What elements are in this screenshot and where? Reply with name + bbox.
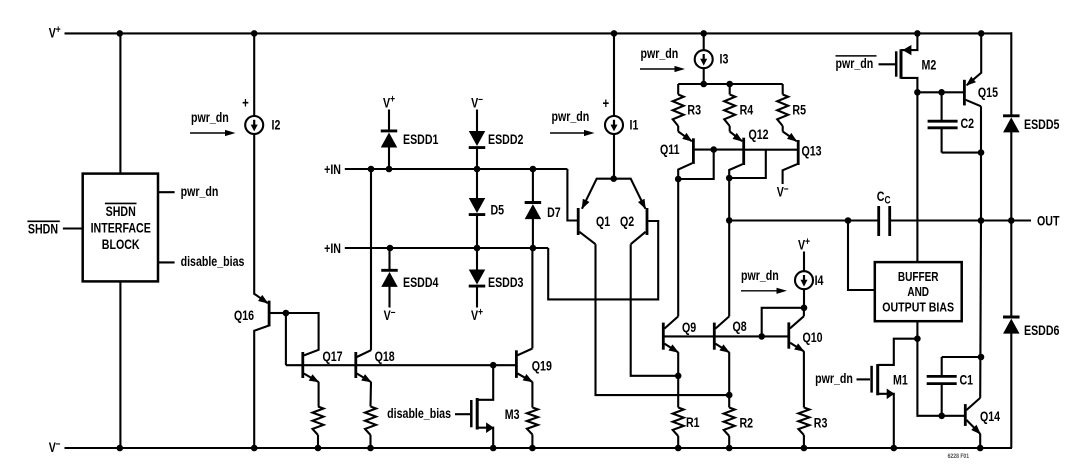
transistor Q2 xyxy=(614,179,647,245)
svg-text:OUT: OUT xyxy=(1037,213,1060,229)
junction on V+ rail at SHDN column xyxy=(117,30,124,37)
resistor Q17 emitter degeneration xyxy=(313,407,324,436)
pwr_dn control label and arrow for I3 xyxy=(640,46,685,73)
junction on V+ rail at I2 column xyxy=(251,30,258,37)
svg-text:ESDD5: ESDD5 xyxy=(1024,117,1060,133)
wire Q17 emitter to resistor xyxy=(318,382,320,407)
svg-text:Q14: Q14 xyxy=(980,408,1000,424)
wire base bus Q17 Q18 Q19 xyxy=(286,364,517,366)
wire Q19 collector up to +IN row2 node xyxy=(531,248,533,349)
resistor R2 xyxy=(724,408,753,449)
junction row1 at ESDD2/D5 xyxy=(474,166,481,173)
transistor Q16 xyxy=(234,294,286,448)
diode ESDD5 xyxy=(1003,32,1059,220)
junction OUT row at ESD column xyxy=(1008,217,1015,224)
svg-text:pwr_dn: pwr_dn xyxy=(815,371,853,387)
svg-text:C2: C2 xyxy=(961,116,975,132)
junction OUT row at Q15/Q14 column xyxy=(978,217,985,224)
wire compensation node to Cc xyxy=(729,219,879,221)
svg-text:I4: I4 xyxy=(815,273,824,289)
figure label 6228 F01 xyxy=(948,454,970,461)
svg-text:+IN: +IN xyxy=(324,162,341,178)
wire buffer output down xyxy=(916,321,918,339)
junction resistor bus at I3 xyxy=(700,81,707,88)
svg-text:D5: D5 xyxy=(491,202,505,218)
svg-text:INTERFACE: INTERFACE xyxy=(91,220,151,236)
junction Q14 base at C1 xyxy=(938,413,945,420)
svg-text:6228 F01: 6228 F01 xyxy=(948,454,970,461)
SHDN interface block box xyxy=(83,174,158,282)
transistor Q17 xyxy=(303,349,343,383)
node OUT label xyxy=(1037,213,1060,229)
wire base bus Q9 Q8 Q10 xyxy=(664,335,788,337)
junction on V- rail at M1 source xyxy=(891,445,898,452)
transistor Q12 xyxy=(729,126,798,178)
svg-text:SHDN: SHDN xyxy=(28,221,58,237)
wire Q18 emitter to resistor xyxy=(369,382,372,407)
svg-text:OUTPUT BIAS: OUTPUT BIAS xyxy=(882,300,954,315)
junction on V- rail at Q16 collector xyxy=(251,445,258,452)
wire Q11 collector down to Q9 xyxy=(677,179,679,316)
transistor Q9 xyxy=(663,316,696,352)
wire I2 to Q16 emitter xyxy=(253,134,255,295)
junction on V+ rail at M2 xyxy=(914,30,921,37)
junction C1 top at Q14 collector column xyxy=(978,354,985,361)
buffer and output bias block xyxy=(875,262,962,321)
svg-text:+: + xyxy=(602,95,609,112)
svg-text:Q10: Q10 xyxy=(802,330,822,346)
junction Q15 collector at C2 xyxy=(978,149,985,156)
svg-text:I1: I1 xyxy=(630,117,639,133)
svg-text:SHDN: SHDN xyxy=(106,204,136,220)
SHDN input pin label with overline and lead xyxy=(27,221,82,237)
wire V+ rail to SHDN block top xyxy=(119,33,121,173)
junction on V- rail at SHDN column xyxy=(117,445,124,452)
junction on V- rail at R1 xyxy=(675,445,682,452)
svg-text:Q19: Q19 xyxy=(532,358,552,374)
svg-text:disable_bias: disable_bias xyxy=(387,405,451,421)
diode ESDD4 with V- label xyxy=(381,248,438,323)
transistor Q1 xyxy=(578,179,614,245)
wire I3 to resistor bus xyxy=(703,68,705,84)
wire SHDN block bottom to V- rail xyxy=(119,281,121,448)
node Q16 base junction xyxy=(283,310,290,317)
pwr_dn control label and arrow for I2 xyxy=(190,110,236,136)
junction Q9 emitter at Q2 collector xyxy=(675,373,682,380)
wire buffer output to Q14 base xyxy=(917,339,964,416)
wire Cc branch to buffer input xyxy=(848,221,875,291)
svg-text:AND: AND xyxy=(907,285,929,300)
junction on V+ rail at I1 column xyxy=(611,30,618,37)
svg-text:M3: M3 xyxy=(505,407,520,423)
resistor Q18 emitter degeneration xyxy=(365,407,376,436)
svg-text:Q9: Q9 xyxy=(682,320,696,336)
wire Q1 collector down xyxy=(596,244,730,395)
wire I1 to Q1/Q2 emitters xyxy=(613,134,615,179)
svg-text:Q12: Q12 xyxy=(749,127,769,143)
svg-text:Q13: Q13 xyxy=(801,143,821,159)
svg-text:pwr_dn: pwr_dn xyxy=(191,110,229,126)
junction row1 at ESDD1 xyxy=(386,166,393,173)
svg-text:pwr_dn: pwr_dn xyxy=(641,46,679,62)
junction C2 top at base line xyxy=(938,89,945,96)
diode D7 xyxy=(525,169,561,248)
svg-text:C1: C1 xyxy=(960,372,974,388)
junction on V- rail at R2 xyxy=(726,445,733,452)
junction I4 output node xyxy=(801,305,808,312)
junction buffer output node xyxy=(914,335,921,342)
pin pwr_dn output of SHDN block xyxy=(158,183,218,199)
junction Q12 collector node xyxy=(726,175,733,182)
svg-text:pwr_dn: pwr_dn xyxy=(741,268,779,284)
svg-text:R2: R2 xyxy=(740,415,754,431)
junction on V- rail at Q18 resistor xyxy=(367,445,374,452)
pin disable_bias output of SHDN block xyxy=(158,254,244,270)
svg-text:pwr_dn: pwr_dn xyxy=(181,183,219,199)
svg-text:Q11: Q11 xyxy=(660,142,680,158)
junction resistor bus at R4 xyxy=(726,81,733,88)
junction Q11 base xyxy=(710,146,717,153)
svg-text:Q16: Q16 xyxy=(234,308,254,324)
transistor M2 xyxy=(896,33,936,92)
resistor R4 xyxy=(724,84,753,126)
transistor Q18 xyxy=(356,349,395,383)
svg-text:Q18: Q18 xyxy=(375,349,395,365)
svg-text:pwr_dn: pwr_dn xyxy=(836,56,874,72)
wire Q14 collector up xyxy=(979,221,982,398)
wire Q11 base to collector xyxy=(678,150,714,179)
net V- bottom supply rail with label xyxy=(49,438,1012,455)
wire Q2 collector down xyxy=(631,244,679,376)
svg-text:ESDD6: ESDD6 xyxy=(1024,323,1060,339)
junction row1 at Q18 collector xyxy=(368,166,375,173)
wire M2 drain to Q15 base xyxy=(917,91,963,93)
svg-text:BLOCK: BLOCK xyxy=(102,236,140,252)
resistor R5 xyxy=(777,84,806,126)
wire row1 to Q1 base xyxy=(567,169,577,221)
wire Q10 collector up to I4 xyxy=(803,308,805,316)
wire buffer output to M1 drain xyxy=(878,339,918,365)
wire V+ rail to I1 xyxy=(613,33,615,116)
svg-text:Q1: Q1 xyxy=(596,214,610,230)
node +IN input row2 label and wire xyxy=(324,241,548,257)
junction M3 drain on base bus xyxy=(490,362,497,369)
junction on V+ rail at I3 column xyxy=(700,30,707,37)
wire Q12 base tie-down xyxy=(729,150,766,178)
svg-text:Q15: Q15 xyxy=(978,85,998,101)
svg-text:ESDD1: ESDD1 xyxy=(403,132,439,148)
node Q1 Q2 emitter junction xyxy=(610,175,617,182)
diode ESDD6 xyxy=(1003,221,1059,449)
wire Q9 emitter down to R1 xyxy=(677,352,679,407)
svg-text:Q2: Q2 xyxy=(620,214,634,230)
transistor Q15 xyxy=(964,77,998,107)
transistor Q11 xyxy=(660,126,744,179)
pwr_dn control label and arrow for I4 xyxy=(741,268,787,294)
svg-text:BUFFER: BUFFER xyxy=(898,270,939,285)
svg-text:+: + xyxy=(242,94,249,111)
transistor Q8 xyxy=(714,316,746,352)
wire I4 to Q10 collector xyxy=(803,289,805,308)
transistor Q14 xyxy=(965,398,1000,435)
svg-text:R4: R4 xyxy=(740,102,754,118)
wire row2 to Q2 base xyxy=(548,221,658,299)
junction row2 at D7/Q19 xyxy=(530,245,537,252)
resistor R3 xyxy=(673,84,701,126)
transistor M1 with pwr_dn gate label xyxy=(815,364,908,448)
current source I4 with V+ label xyxy=(795,236,824,289)
current source I3 xyxy=(695,50,729,68)
diode D5 xyxy=(469,169,504,248)
wire Q8 collector up to compensation node xyxy=(728,220,730,316)
junction on V- rail at R3 xyxy=(801,445,808,452)
capacitor C2 xyxy=(928,92,981,152)
transistor M3 with disable_bias gate label xyxy=(387,365,519,448)
wire I4 node to base bus xyxy=(762,308,804,337)
wire Q10 emitter down to R3 xyxy=(803,351,805,407)
wire Q15 collector down xyxy=(980,106,982,220)
wire Q16 base to Q17 collector xyxy=(286,313,319,355)
wire V+ rail to I2 xyxy=(253,33,255,116)
wire Q16 base down to base bus xyxy=(285,313,287,365)
wire Q18 collector up to +IN row1 xyxy=(370,169,372,350)
svg-text:R5: R5 xyxy=(792,102,806,118)
diode ESDD2 with V- label xyxy=(469,94,524,169)
svg-text:ESDD2: ESDD2 xyxy=(488,132,524,148)
node +IN input row1 label and wire xyxy=(324,162,567,178)
junction on V- rail at M3 source xyxy=(490,445,497,452)
svg-text:+IN: +IN xyxy=(324,241,341,257)
wire resistor to V- rail xyxy=(531,435,533,449)
wire Q19 emitter to resistor xyxy=(531,382,533,408)
junction row1 at D7 xyxy=(530,166,537,173)
wire Q14 emitter to V- rail xyxy=(979,434,981,448)
wire M2 drain column down to buffer xyxy=(916,92,918,262)
wire V+ rail to Q15 emitter xyxy=(967,33,982,85)
transistor Q13 xyxy=(783,126,822,184)
svg-text:Q8: Q8 xyxy=(733,319,747,335)
junction M2 drain node xyxy=(914,89,921,96)
junction on V- rail at Q17 resistor xyxy=(315,445,322,452)
wire Q12 collector down to compensation node xyxy=(728,178,730,220)
junction on V- rail at Q19 resistor xyxy=(529,445,536,452)
junction base bus at I4 feed xyxy=(758,333,765,340)
svg-text:disable_bias: disable_bias xyxy=(181,254,245,270)
svg-text:ESDD3: ESDD3 xyxy=(488,275,524,291)
current source I1 xyxy=(602,95,638,134)
label V- at Q13 collector xyxy=(777,183,789,200)
capacitor CC xyxy=(877,188,891,236)
svg-text:M2: M2 xyxy=(922,57,937,73)
junction Q11 collector node xyxy=(675,176,682,183)
pwr_dn-bar gate label for M2 xyxy=(836,56,896,72)
junction at Cc branch xyxy=(845,217,852,224)
junction on V+ rail at Q15 xyxy=(978,30,985,37)
svg-text:M1: M1 xyxy=(893,372,908,388)
svg-text:R1: R1 xyxy=(686,415,700,431)
resistor R1 xyxy=(673,408,700,449)
wire Cc to OUT xyxy=(890,219,1031,221)
net V+ top supply rail with label xyxy=(49,24,1012,41)
pwr_dn control label and arrow for I1 xyxy=(550,109,595,136)
svg-text:ESDD4: ESDD4 xyxy=(403,275,439,291)
svg-text:R3: R3 xyxy=(814,415,828,431)
wire resistor to V- rail xyxy=(369,435,371,448)
transistor Q19 xyxy=(516,349,552,383)
resistor Q19 emitter degeneration xyxy=(527,408,538,435)
node compensation junction xyxy=(726,217,733,224)
svg-text:I2: I2 xyxy=(272,117,281,133)
svg-text:I3: I3 xyxy=(720,51,729,67)
junction on V- rail at Q14 emitter xyxy=(977,445,984,452)
diode ESDD1 with V+ label xyxy=(381,94,439,169)
wire V+ rail to I3 xyxy=(703,33,705,50)
current source I2 xyxy=(242,94,280,134)
capacitor C1 xyxy=(927,357,981,416)
transistor Q10 xyxy=(789,316,823,352)
svg-text:R3: R3 xyxy=(687,102,701,118)
wire resistor to V- rail xyxy=(317,435,319,448)
resistor R3 bottom xyxy=(798,408,827,449)
svg-text:pwr_dn: pwr_dn xyxy=(552,109,590,125)
junction row2 at ESDD3/D5 xyxy=(474,245,481,252)
svg-text:Q17: Q17 xyxy=(323,349,343,365)
junction row2 at ESDD4 xyxy=(387,245,394,252)
wire Q8 emitter down to R2 xyxy=(728,352,730,407)
wire resistor bus R3 R4 R5 xyxy=(678,83,783,85)
junction Q8 emitter at Q1 collector xyxy=(726,392,733,399)
svg-text:D7: D7 xyxy=(547,205,561,221)
diode ESDD3 with V+ label xyxy=(469,248,524,323)
